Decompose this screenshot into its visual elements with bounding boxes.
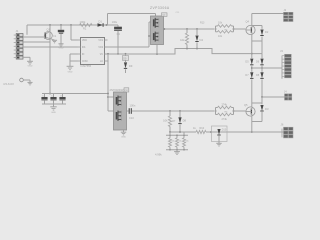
svg-text:GND: GND <box>59 48 64 50</box>
svg-text:2N7002DW: 2N7002DW <box>110 88 124 92</box>
svg-text:Q4: Q4 <box>246 20 250 24</box>
svg-text:100k: 100k <box>80 20 86 24</box>
svg-text:R1: R1 <box>83 27 87 31</box>
svg-text:C10: C10 <box>129 116 134 120</box>
svg-text:4.5-6.0V: 4.5-6.0V <box>3 82 14 86</box>
svg-text:10k: 10k <box>163 119 168 123</box>
svg-text:J3: J3 <box>280 49 283 53</box>
svg-text:GND: GND <box>51 112 56 114</box>
svg-text:J1: J1 <box>16 29 19 33</box>
svg-text:VO2: VO2 <box>98 47 103 49</box>
svg-text:10k: 10k <box>180 38 185 42</box>
svg-text:COM: COM <box>82 61 87 63</box>
svg-text:ICM7555: ICM7555 <box>81 64 92 68</box>
svg-text:IN: IN <box>82 54 85 56</box>
svg-text:J6: J6 <box>281 123 284 127</box>
svg-text:274k: 274k <box>222 103 228 106</box>
svg-text:D10: D10 <box>222 129 227 132</box>
svg-text:GND: GND <box>121 136 126 138</box>
svg-text:Q5: Q5 <box>244 103 248 107</box>
svg-text:100u: 100u <box>112 21 118 24</box>
svg-text:D4: D4 <box>200 38 204 42</box>
svg-text:R10: R10 <box>200 127 205 130</box>
svg-text:D1: D1 <box>99 20 103 24</box>
svg-text:100n: 100n <box>130 104 136 108</box>
svg-text:ZVP3306A: ZVP3306A <box>150 6 170 10</box>
svg-text:R13: R13 <box>200 22 205 25</box>
svg-text:GND: GND <box>28 66 33 68</box>
svg-text:VO1: VO1 <box>98 40 103 42</box>
svg-text:VDD: VDD <box>82 40 87 42</box>
svg-text:4.99k: 4.99k <box>155 153 162 157</box>
svg-text:D3: D3 <box>265 107 269 111</box>
svg-text:D2: D2 <box>265 30 269 34</box>
svg-text:D9: D9 <box>129 64 133 68</box>
svg-text:274k: 274k <box>222 118 228 121</box>
svg-text:VC: VC <box>100 54 104 56</box>
svg-text:GND: GND <box>68 72 73 74</box>
svg-text:LC: LC <box>100 61 103 63</box>
svg-text:D8: D8 <box>183 119 187 123</box>
